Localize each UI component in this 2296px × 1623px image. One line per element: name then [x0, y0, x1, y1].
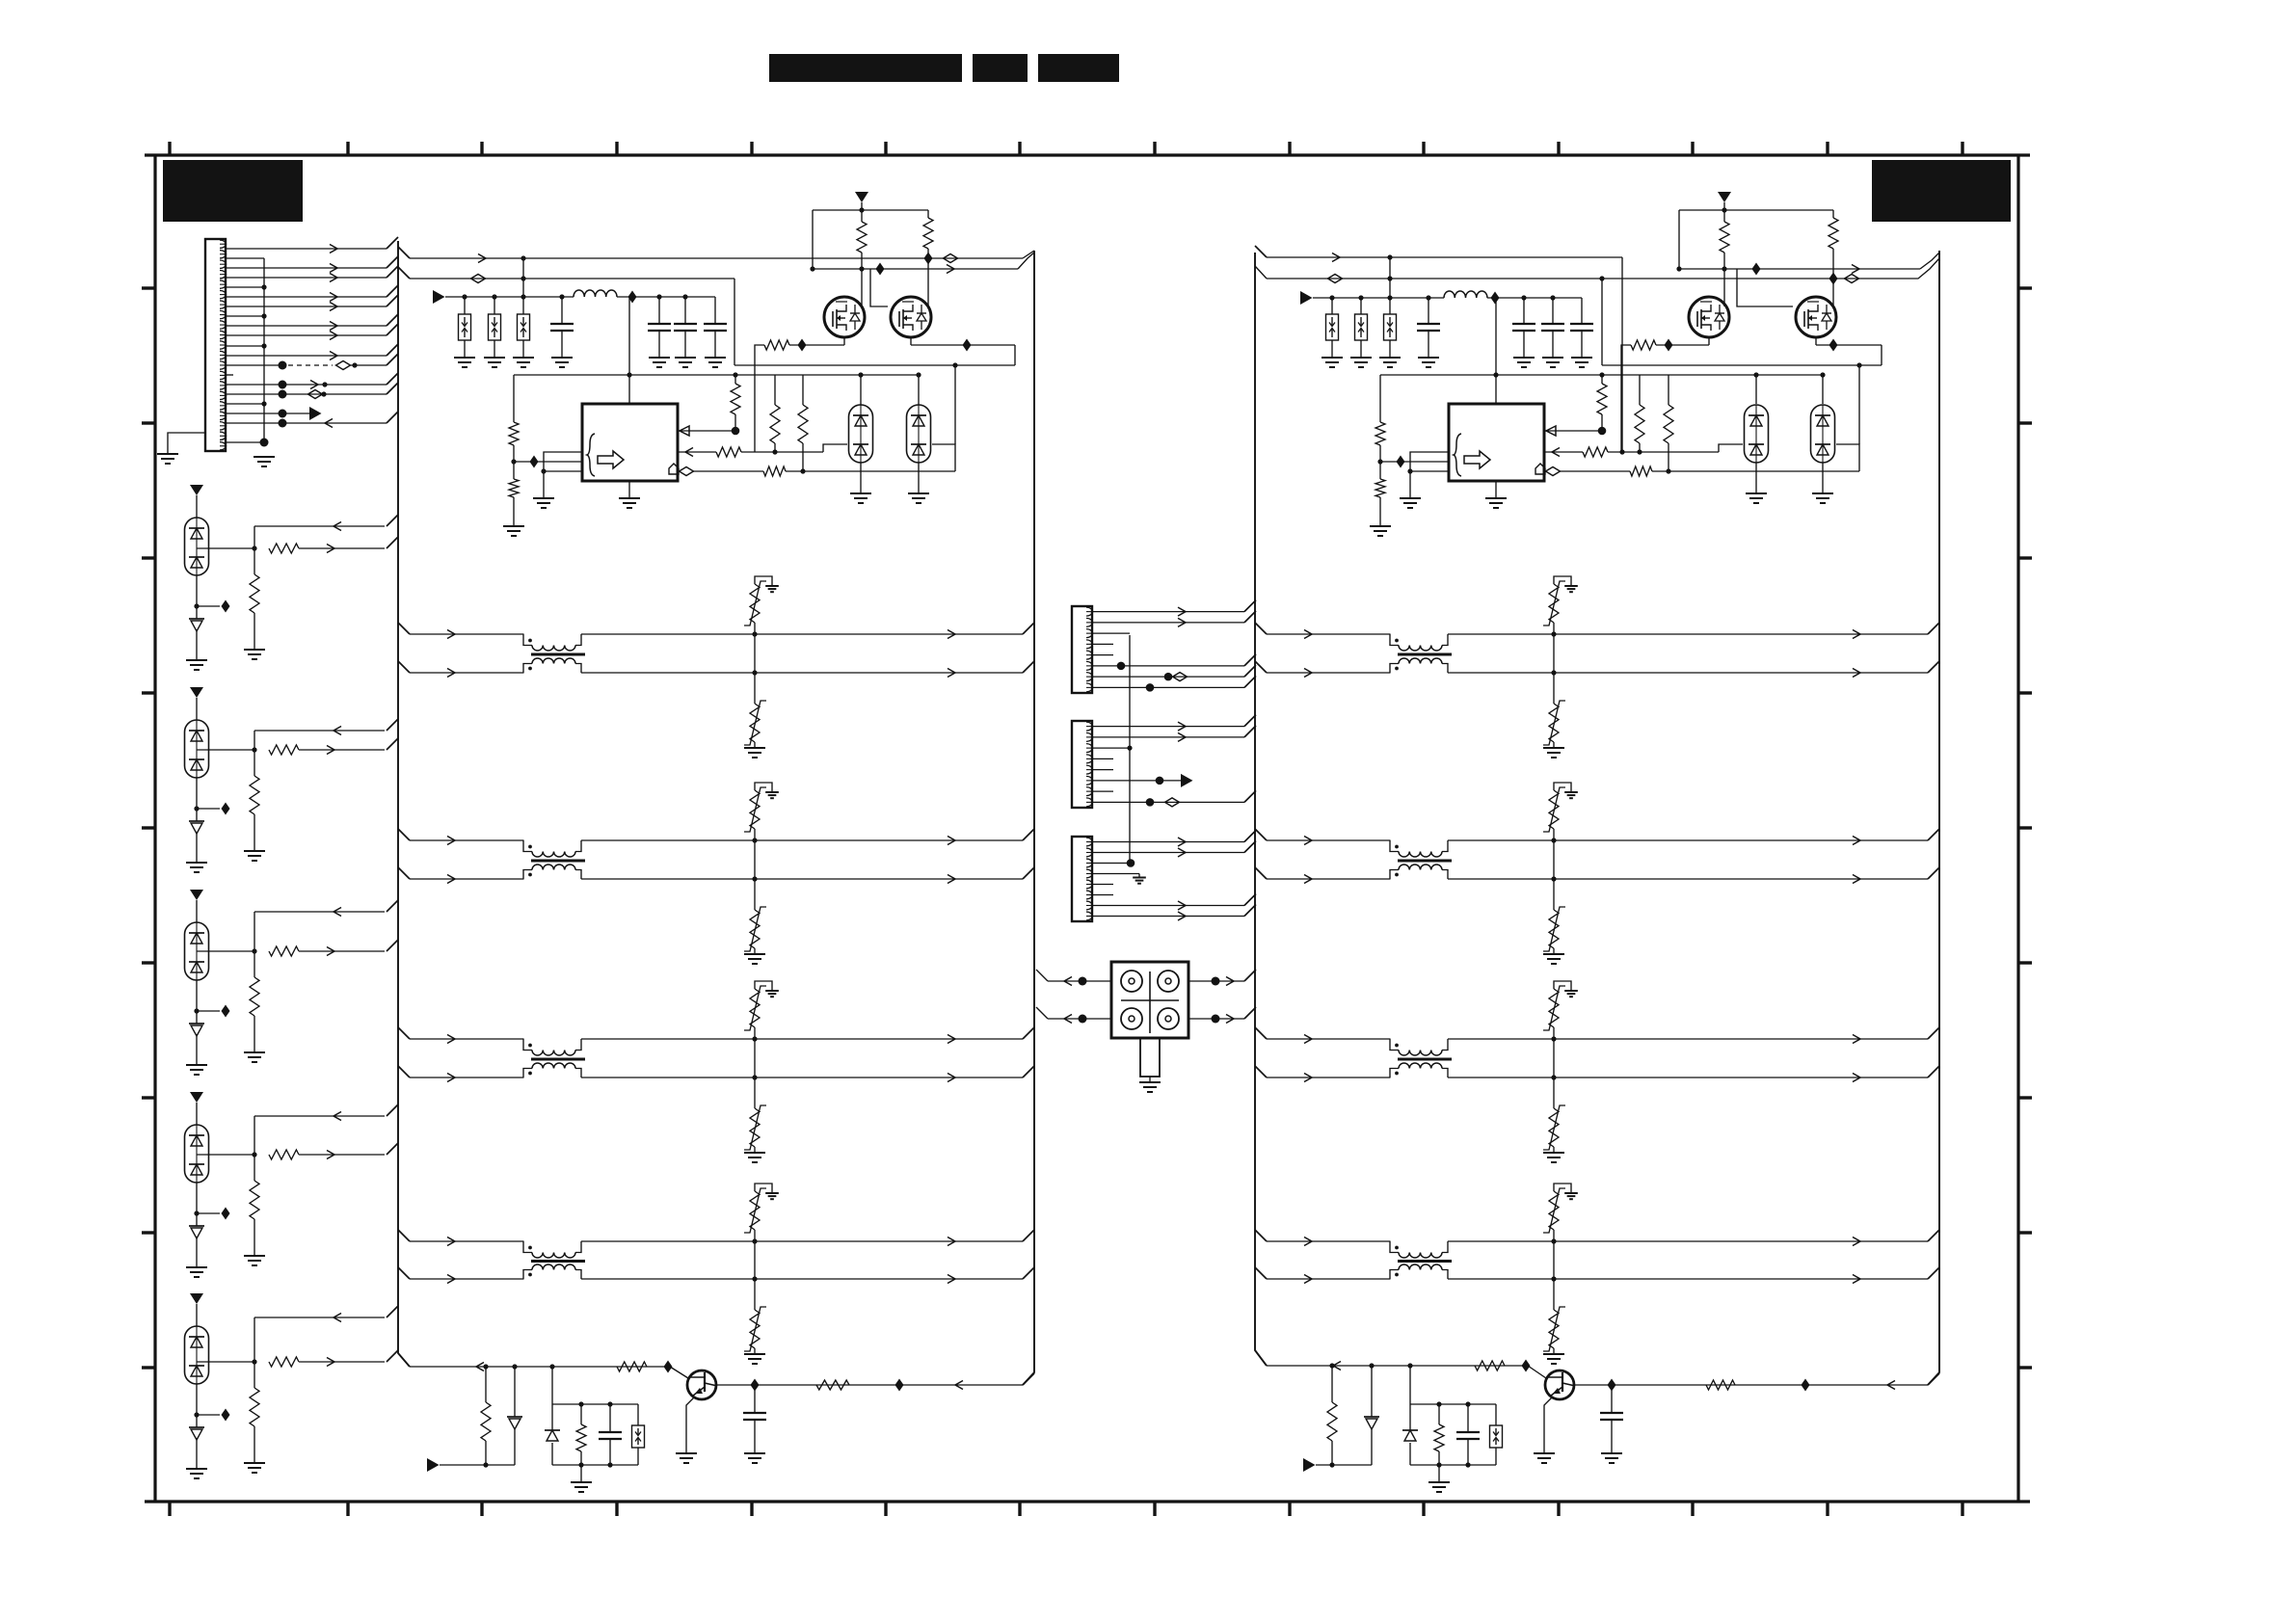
CN5 shield tab [1140, 1038, 1160, 1077]
connector CN1 (21-pin) [205, 239, 227, 451]
wire CN4 pin 6 [1092, 894, 1113, 896]
wire source R1 [1621, 337, 1709, 452]
resistor RfL1 [731, 375, 740, 435]
wire IC left pins L [514, 452, 582, 474]
capacitor CR3 [1541, 298, 1564, 358]
fuse FBR1 [1326, 298, 1339, 358]
wire CN4 pin 3 [1092, 859, 1135, 867]
resistor RdL2 [798, 375, 808, 474]
wire fuse feed right [1389, 257, 1391, 298]
wire CN3 pin 6 [1092, 774, 1193, 787]
wire bus pair2 R [1255, 867, 1939, 884]
inductor LL1 [574, 290, 617, 297]
transformer TL2 [523, 840, 585, 879]
wire connector CN1 pin row [226, 313, 267, 318]
power flag FR [1300, 291, 1313, 305]
resistor R2a [250, 750, 259, 851]
wire CN2 pin 4 [1092, 643, 1113, 645]
wire net hv1 [398, 247, 1034, 265]
thermistor RTL1a [744, 576, 779, 634]
ground R4a [244, 1256, 265, 1265]
thermistor RTR1b [1543, 673, 1565, 748]
wire DDL tops [858, 372, 921, 405]
power flag P2 [190, 687, 203, 720]
wire comp rise R [1856, 362, 1861, 444]
wire DDL1 gnd [850, 463, 871, 503]
node pair2 R [1551, 838, 1556, 881]
wire net hv3 right [1676, 253, 1939, 276]
resistor RbL2 [509, 479, 519, 526]
wire diode to ground [196, 1237, 198, 1267]
wire diode to ground [196, 1034, 198, 1065]
ground CeL [744, 1453, 765, 1463]
thermistor RTL4b [744, 1279, 766, 1354]
wire UR1 pin FB [1544, 426, 1602, 436]
op-amp UL1 [582, 404, 678, 481]
wire group5 upper [254, 1306, 398, 1362]
transistor QR3 [1545, 1370, 1574, 1399]
wire source R2 [1816, 337, 1882, 365]
thermistor RTL1b [744, 673, 766, 748]
wire connector CN1 pin row [226, 383, 398, 399]
fuse FBL1 [459, 297, 471, 358]
capacitor CeL [743, 1385, 766, 1453]
wire IC top feed R [1495, 298, 1497, 404]
CN5 contact [1158, 971, 1179, 992]
wire connector CN1 pin row [226, 285, 398, 302]
ground RTR3b [1543, 1153, 1564, 1162]
wire gate loop R [1679, 207, 1833, 212]
wire DDL2 gnd [908, 463, 929, 503]
ground CN1 shield [157, 454, 178, 464]
wire diode to ground [196, 832, 198, 863]
ground group3 [186, 1065, 207, 1075]
diode DpR [1402, 1404, 1418, 1465]
bus rail right-half left [1255, 253, 1267, 1366]
wire bus pair3 L [398, 1027, 1034, 1044]
wire bus pair4 R [1255, 1230, 1939, 1246]
capacitor CpR [1456, 1404, 1480, 1465]
ground CL1 [551, 358, 573, 367]
wire connector CN1 pin row [226, 373, 398, 389]
ground FBR1 [1322, 358, 1343, 367]
ground FBL3 [513, 358, 534, 367]
wire connector CN1 pin row [226, 256, 398, 273]
title redaction bar 2 [973, 54, 1028, 82]
UL1 pentagon glyph [669, 464, 679, 474]
wire DDR2 gnd [1812, 463, 1833, 503]
thermistor RTR1a [1543, 576, 1578, 634]
resistor RbR2 [1375, 479, 1385, 526]
wire bus pair2 R [1255, 829, 1939, 845]
bus rail right-half right [1928, 251, 1939, 1385]
dual diode D1 [185, 518, 209, 575]
diode D8 [189, 1024, 204, 1036]
bus rail left-half left [398, 241, 410, 1367]
ground CN1 inner [254, 457, 275, 466]
wire trunk vertical [1129, 635, 1131, 865]
capacitor CL3 [674, 297, 697, 358]
wire CN3 pin 7 [1092, 790, 1113, 792]
wire CN5 right A [1188, 970, 1256, 986]
wire connector CN1 pin row [226, 412, 398, 428]
ground UL1 aux [533, 471, 554, 508]
ground QL3 emitter [676, 1453, 697, 1463]
node pair3 R [1551, 1036, 1556, 1079]
diode DzR [1364, 1366, 1379, 1465]
wire CN4 pin 7 [1092, 894, 1256, 911]
wire CN2 pin 1 [1092, 600, 1256, 617]
ground RbL2 [503, 526, 524, 536]
node group3 sense [194, 980, 229, 1024]
resistor RgL1 [857, 210, 867, 306]
wire collector net R [1574, 1373, 1939, 1392]
UL1 arrow glyph [598, 451, 624, 468]
ground CR3 [1542, 358, 1563, 367]
node group1 sense [194, 575, 229, 619]
wire net hv2 right [1255, 258, 1939, 285]
UR1 brace glyph [1454, 434, 1461, 476]
UL1 brace glyph [587, 434, 595, 476]
wire collector net L [716, 1373, 1034, 1392]
wire connector CN1 pin row [226, 237, 398, 253]
wire D10 output [197, 1152, 257, 1157]
wire CN3 pin 4 [1092, 758, 1113, 759]
wire connector CN1 pin row [226, 401, 267, 406]
wire bias bus L [514, 372, 919, 377]
connector CN5 body [1111, 962, 1188, 1038]
connector CN3 [1072, 721, 1093, 808]
wire bus pair3 R [1255, 1066, 1939, 1082]
title redaction bar 1 [769, 54, 962, 82]
wire connector CN1 pin row [226, 314, 398, 331]
wire CN3 pin 8 [1092, 790, 1256, 807]
ground group2 [186, 863, 207, 872]
thermistor RTR4a [1543, 1184, 1578, 1241]
resistor R3a [250, 951, 259, 1052]
capacitor CpL [599, 1404, 622, 1465]
wire CN2 pin 6 [1092, 654, 1256, 670]
resistor R4a [250, 1155, 259, 1256]
mosfet QL1 [824, 297, 865, 337]
thermistor RTL4a [744, 1184, 779, 1241]
transformer TL1 [523, 634, 585, 673]
wire bus pair4 R [1255, 1267, 1939, 1284]
wire bus pair4 L [398, 1267, 1034, 1284]
ground RTR1b [1543, 748, 1564, 758]
resistor RzR [1327, 1366, 1337, 1465]
wire zener net R [1316, 1462, 1372, 1467]
node pair2 L [752, 838, 757, 881]
transformer TR1 [1390, 634, 1452, 673]
capacitor CL4 [704, 297, 727, 358]
wire connector CN1 pin row [168, 433, 205, 454]
wire DDR tops [1753, 372, 1825, 404]
transistor QL3 [687, 1370, 716, 1399]
wire connector CN1 pin row [226, 257, 264, 259]
wire QL3 emitter [686, 1397, 694, 1454]
wire group2 upper [254, 719, 398, 750]
capacitor CL1 [550, 297, 574, 358]
resistor RgL2 [923, 210, 933, 306]
wire connector CN1 pin row [226, 344, 398, 360]
fuse FBR2 [1355, 298, 1368, 358]
wire CN4 pin 4 [1092, 874, 1146, 884]
thermistor RTR3b [1543, 1078, 1565, 1153]
bus rail left-half right [1023, 251, 1034, 1385]
wire CN5 left A [1036, 970, 1111, 986]
power flag VR [1718, 192, 1731, 210]
wire bus pair1 R [1255, 661, 1939, 678]
wire CN3 pin 1 [1092, 715, 1256, 732]
power flag P3 [190, 890, 203, 922]
title redaction bar 3 [1038, 54, 1119, 82]
diode D2 [189, 619, 204, 631]
wire CN2 pin 3 [1092, 632, 1130, 634]
wire bus pair2 L [398, 829, 1034, 845]
wire zener net L [440, 1462, 515, 1467]
wire bus pair4 L [398, 1230, 1034, 1246]
resistor RbR1 [1375, 375, 1385, 479]
wire D1 output [197, 545, 257, 550]
wire CN2 pin 5 [1092, 654, 1113, 656]
wire UR1 pin CS [1544, 444, 1743, 457]
thermistor RTL3b [744, 1078, 766, 1153]
mosfet QL2 [891, 297, 931, 337]
ground CR1 [1418, 358, 1439, 367]
thermistor RTL3a [744, 981, 779, 1039]
wire CN2 pin 7 [1092, 665, 1256, 681]
wire prot top L [552, 1367, 638, 1407]
power flag P5 [190, 1293, 203, 1326]
drawing border frame [145, 155, 2030, 1502]
wire CN2 pin 8 [1092, 676, 1256, 691]
wire prot top R [1410, 1366, 1496, 1407]
wire D7 output [197, 948, 257, 953]
wire group3 upper [254, 900, 398, 951]
thermistor RTL2b [744, 879, 766, 954]
ground RTL4b [744, 1354, 765, 1364]
node pair4 R [1551, 1238, 1556, 1281]
wire fuse feed [522, 258, 524, 297]
wire group2 lower [269, 738, 398, 755]
ground FBR3 [1379, 358, 1401, 367]
ground RTR4b [1543, 1354, 1564, 1364]
wire gate drop R [1679, 210, 1793, 306]
ground CN5 [1139, 1082, 1161, 1092]
dual diode DDR2 [1811, 405, 1835, 463]
resistor RbL1 [509, 375, 519, 479]
node group5 sense [194, 1384, 229, 1427]
wire prot bottom R [1410, 1462, 1496, 1467]
wire CN5 right B [1188, 1007, 1256, 1024]
diode DzL [507, 1367, 522, 1465]
ground R1a [244, 650, 265, 659]
ground RbR2 [1370, 526, 1391, 536]
wire DDR1 gnd [1746, 463, 1767, 503]
border ruler ticks right [2018, 288, 2032, 1368]
wire CN3 pin 2 [1092, 726, 1256, 742]
wire bus pair1 R [1255, 623, 1939, 639]
node pair3 L [752, 1036, 757, 1079]
connector CN4 [1072, 837, 1092, 921]
ground R2a [244, 851, 265, 861]
wire CN5 left B [1036, 1007, 1111, 1024]
wire connector CN1 pin row [226, 407, 322, 420]
ground CR4 [1571, 358, 1592, 367]
wire CN1 inner vertical [263, 258, 265, 442]
thermistor RTR3a [1543, 981, 1578, 1039]
wire UL1 pin COMP [680, 444, 956, 476]
transformer TL4 [523, 1241, 585, 1279]
UR1 arrow glyph [1464, 451, 1490, 468]
wire prot bottom L [552, 1462, 638, 1467]
ground FBL2 [484, 358, 505, 367]
resistor R1a [250, 548, 259, 650]
ground group5 [186, 1469, 207, 1478]
wire return L [734, 279, 1015, 365]
ground QR3 emitter [1534, 1453, 1555, 1463]
wire connector CN1 pin row [226, 324, 398, 340]
wire bus pair1 L [398, 623, 1034, 639]
capacitor CR2 [1512, 298, 1535, 358]
inductor LR1 [1444, 291, 1487, 298]
capacitor CeR [1600, 1385, 1623, 1453]
mosfet QR1 [1689, 297, 1729, 337]
diode DpL [545, 1404, 560, 1465]
power flag P1 [190, 485, 203, 518]
ground RTL3b [744, 1153, 765, 1162]
fuse FpR [1490, 1404, 1503, 1465]
border ruler ticks top [170, 142, 1962, 155]
wire connector CN1 pin row [226, 343, 267, 348]
wire connector CN1 pin row [226, 439, 269, 447]
resistor RdR2 [1664, 375, 1673, 474]
resistor RdR1 [1635, 375, 1644, 455]
dual diode D7 [185, 922, 209, 980]
wire base net R [1267, 1360, 1546, 1379]
resistor RzL [481, 1367, 491, 1465]
black label block top-left [163, 160, 303, 222]
ground FBR2 [1350, 358, 1372, 367]
resistor RdL1 [770, 375, 780, 455]
wire group3 lower [269, 940, 398, 956]
wire connector CN1 pin row [226, 284, 267, 289]
dual diode D10 [185, 1125, 209, 1183]
ground CL4 [705, 358, 726, 367]
dual diode D13 [185, 1326, 209, 1384]
wire gate drop L [813, 210, 888, 306]
wire D13 output [197, 1359, 257, 1364]
resistor RpL [576, 1404, 586, 1465]
resistor R5a [250, 1362, 259, 1463]
fuse FpL [632, 1404, 645, 1465]
CN5 divider [1121, 971, 1179, 1033]
ground RTL2b [744, 954, 765, 964]
thermistor RTR4b [1543, 1279, 1565, 1354]
ground CL3 [675, 358, 696, 367]
wire connector CN1 pin row [226, 295, 398, 311]
black label block top-right [1872, 160, 2011, 222]
wire net hv3 [810, 253, 1034, 276]
wire CN3 pin 5 [1092, 769, 1113, 771]
transformer TR4 [1390, 1241, 1452, 1279]
power flag FL [433, 290, 445, 304]
fuse FBR3 [1384, 298, 1397, 358]
wire bus pair3 R [1255, 1027, 1939, 1044]
wire group1 upper [254, 515, 398, 548]
ground group1 [186, 660, 207, 670]
wire group4 upper [254, 1104, 398, 1155]
power flag P4 [190, 1092, 203, 1125]
transformer TR2 [1390, 840, 1452, 879]
wire group1 lower [269, 537, 398, 553]
ground UL1 [619, 481, 640, 508]
CN5 contact [1121, 1008, 1142, 1029]
resistor RgR2 [1829, 210, 1838, 306]
CN5 contact [1121, 971, 1142, 992]
resistor RpR [1434, 1404, 1444, 1465]
wire connector CN1 pin row [226, 266, 398, 282]
op-amp UR1 [1449, 404, 1544, 481]
fuse FBL2 [489, 297, 501, 358]
wire source L2 [911, 337, 1015, 365]
border ruler ticks left [142, 288, 155, 1368]
ground CR2 [1513, 358, 1535, 367]
ground UR1 [1485, 481, 1507, 508]
wire connector CN1 pin row [226, 354, 398, 370]
ground FBL1 [454, 358, 475, 367]
ground RTL1b [744, 748, 765, 758]
transformer TL3 [523, 1039, 585, 1078]
ground CeR [1601, 1453, 1622, 1463]
thermistor RTR2b [1543, 879, 1565, 954]
dual diode DDR1 [1745, 405, 1769, 463]
UR1 pentagon glyph [1535, 464, 1545, 474]
node pair1 R [1551, 631, 1556, 675]
diode D5 [189, 821, 204, 834]
wire UL1 pin CS [678, 444, 847, 457]
wire input feed R [1313, 292, 1582, 305]
ground R3a [244, 1052, 265, 1062]
ground UR1 aux [1400, 471, 1421, 508]
connector CN2 [1072, 606, 1093, 693]
wire CN5 shield [1149, 1077, 1151, 1082]
ground prot R [1428, 1465, 1450, 1492]
power flag BL [427, 1458, 440, 1472]
wire bus pair1 L [398, 661, 1034, 678]
border ruler ticks bottom [170, 1502, 1962, 1516]
capacitor CL2 [648, 297, 671, 358]
resistor RgR1 [1720, 210, 1729, 306]
ground prot L [571, 1465, 592, 1492]
wire return R [1602, 279, 1882, 365]
wire IC left pins R [1380, 452, 1449, 474]
wire input feed L [445, 291, 715, 304]
wire QR3 emitter [1544, 1397, 1552, 1454]
node group2 sense [194, 778, 229, 821]
resistor RfR1 [1597, 375, 1607, 435]
diode D14 [189, 1427, 204, 1440]
wire gate loop L [813, 207, 928, 212]
thermistor RTR2a [1543, 783, 1578, 840]
diode D11 [189, 1226, 204, 1238]
wire CN3 pin 3 [1092, 746, 1133, 751]
thermistor RTL2a [744, 783, 779, 840]
wire bus pair3 L [398, 1066, 1034, 1082]
wire group4 lower [269, 1143, 398, 1159]
ground CL2 [649, 358, 670, 367]
